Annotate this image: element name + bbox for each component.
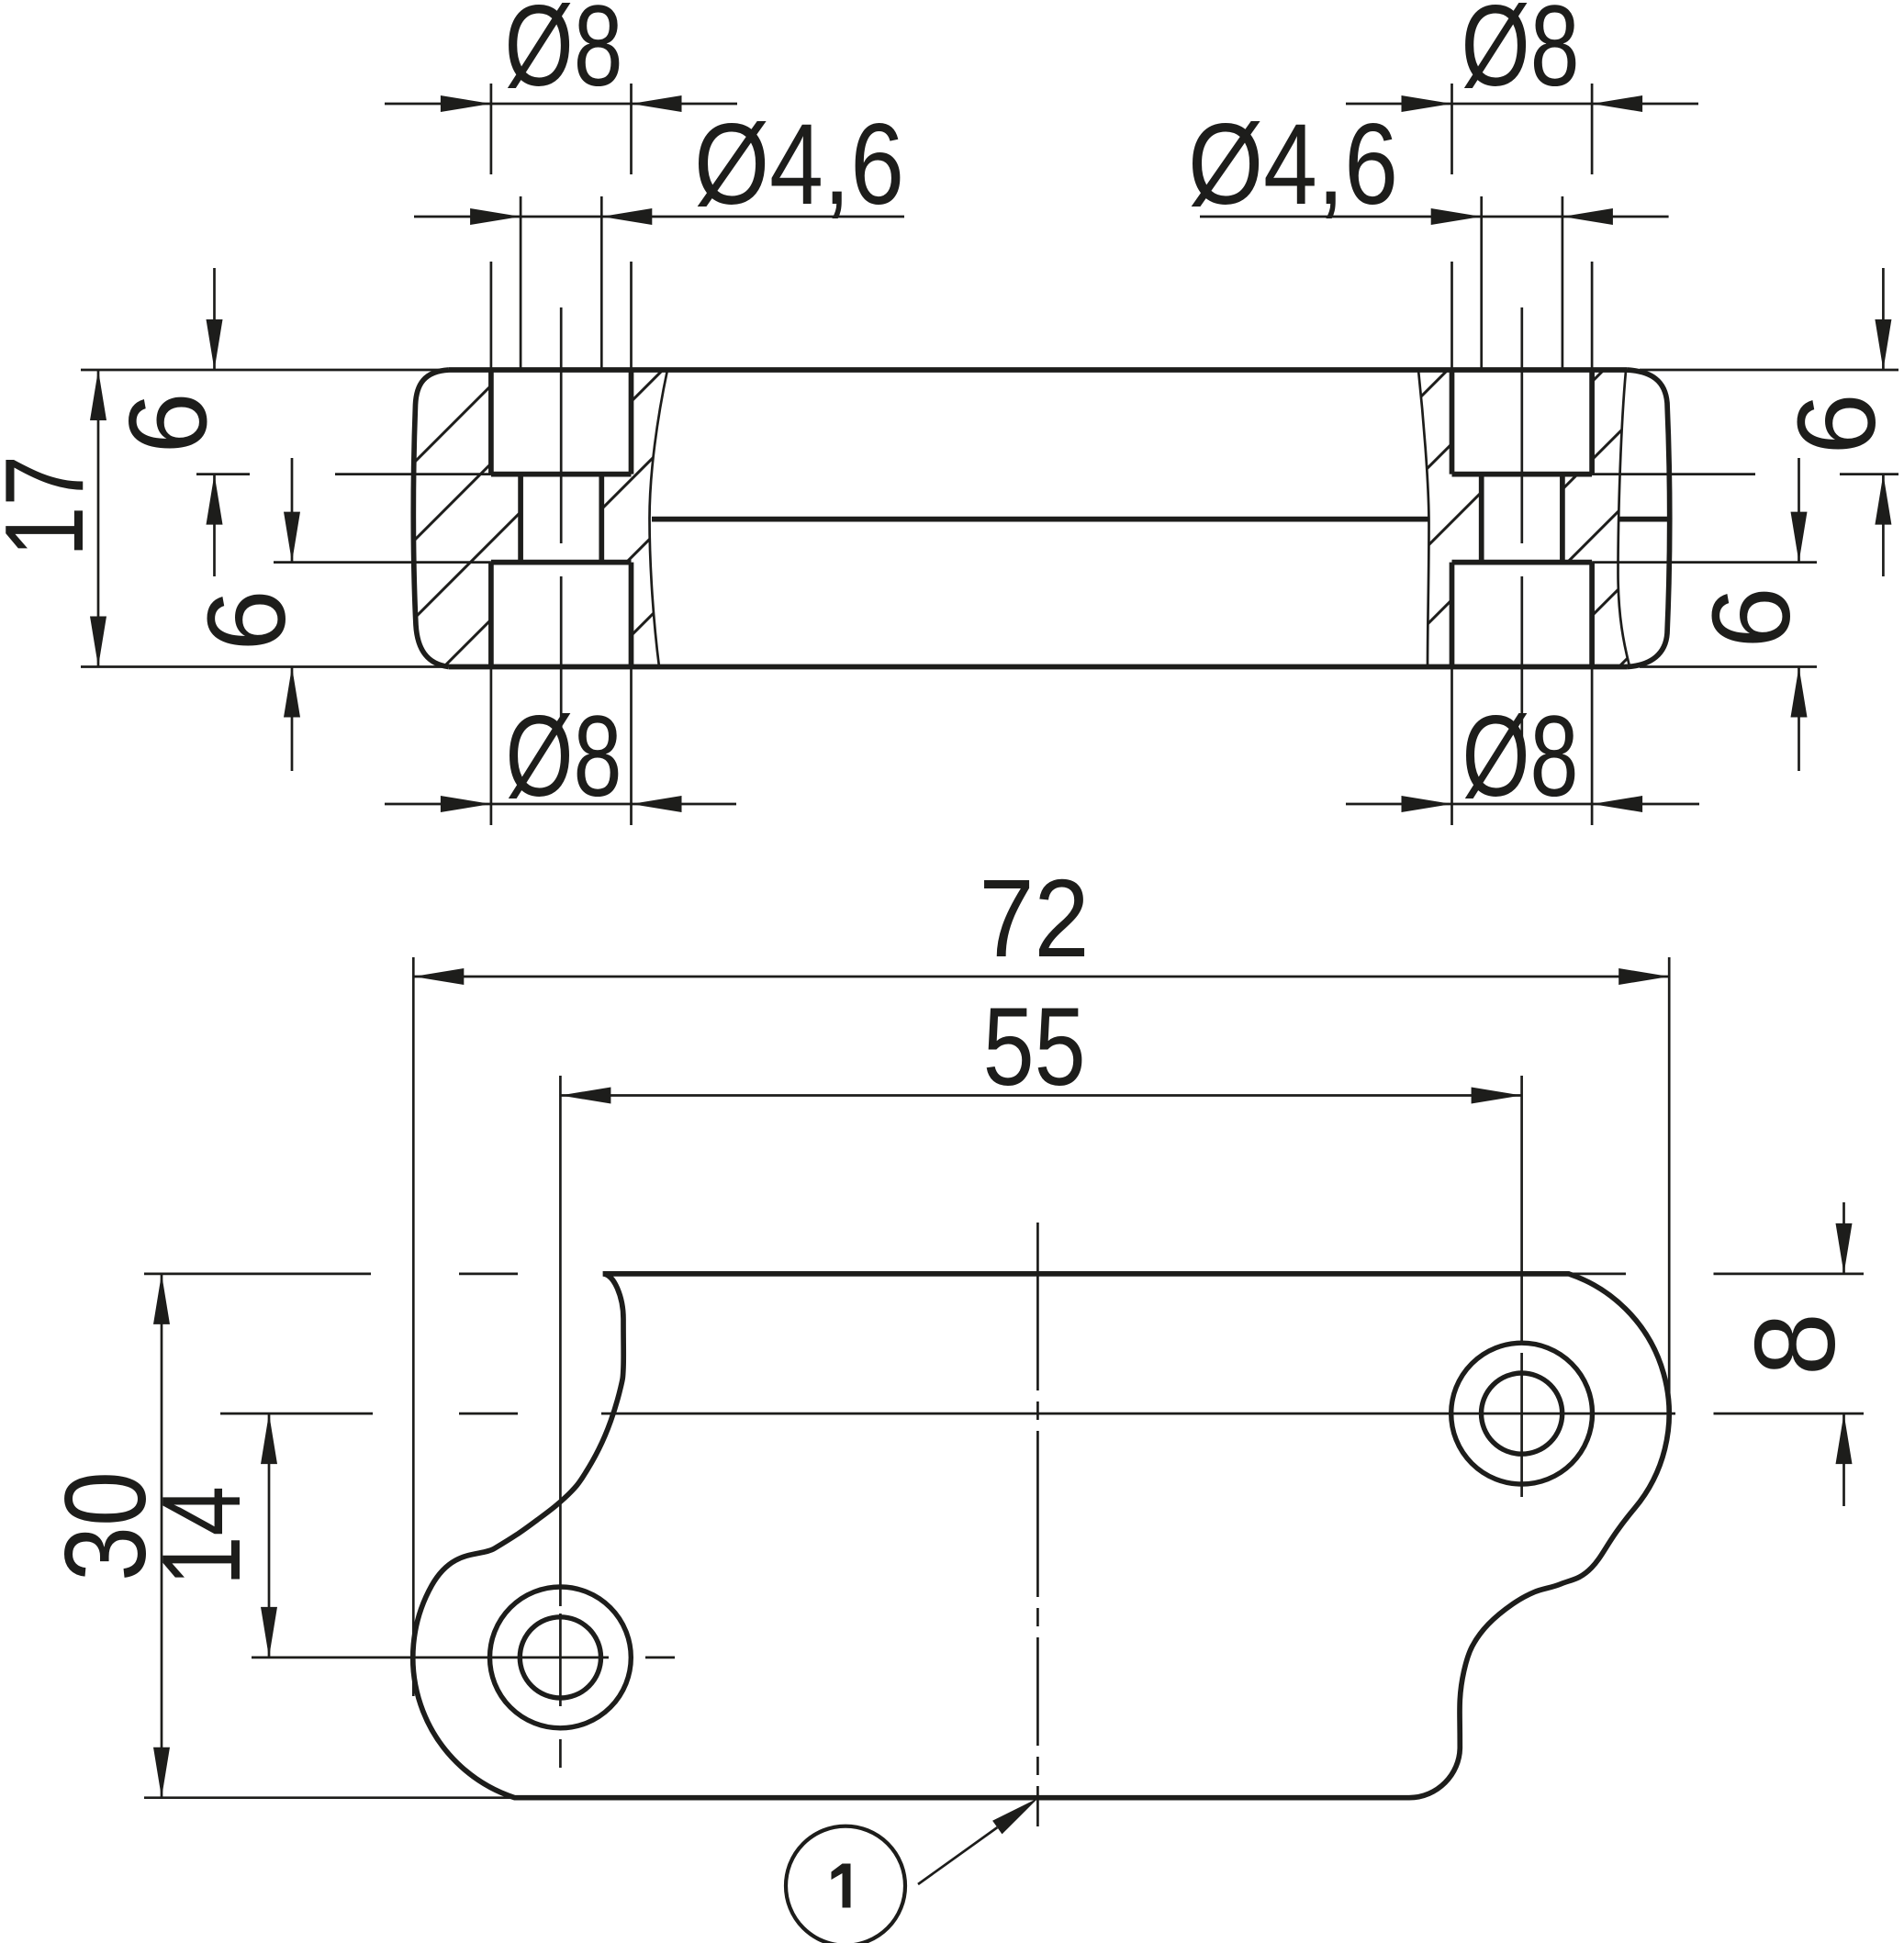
svg-text:Ø4,6: Ø4,6 xyxy=(694,101,904,229)
top edge extension toward 8-dim xyxy=(1561,1273,1626,1276)
balloon circle xyxy=(786,1826,905,1943)
bottom Ø8 extension lines left xyxy=(491,667,632,826)
arrows Ø8 top-right xyxy=(1402,95,1452,112)
left hole outer circle xyxy=(490,1587,632,1728)
label 6 lower-left xyxy=(184,589,308,651)
Ø4,6 extension lines right xyxy=(1482,196,1562,370)
top edge extension left xyxy=(81,369,444,372)
counterbore depth line left (6) xyxy=(196,473,491,475)
Ø8 top-right dimension line xyxy=(1346,103,1698,106)
right hole outer circle xyxy=(1451,1343,1593,1484)
svg-text:Ø8: Ø8 xyxy=(1462,0,1580,110)
arrows 72 xyxy=(413,968,464,985)
arrows 14 xyxy=(261,1413,277,1464)
arrows 17 xyxy=(90,370,106,420)
left hole inner circle xyxy=(520,1617,600,1698)
6 upper-right dimension shafts xyxy=(1882,268,1885,576)
arrows 30 xyxy=(153,1274,170,1324)
14 extension line top / right hole horizontal centerline xyxy=(220,1413,1675,1415)
hatching, right boss xyxy=(1120,340,1904,698)
label 17 xyxy=(0,455,106,557)
arrows 6 lower-left xyxy=(284,512,300,563)
arrows Ø8 top-left xyxy=(441,95,491,112)
left counterbore hole edges xyxy=(491,370,632,667)
svg-text:55: 55 xyxy=(983,984,1086,1109)
svg-text:14: 14 xyxy=(139,1486,263,1586)
Ø4,6 extension lines left xyxy=(521,196,601,370)
svg-text:Ø8: Ø8 xyxy=(505,0,623,110)
svg-text:Ø8: Ø8 xyxy=(1462,693,1579,821)
right hole centerline xyxy=(1520,307,1523,743)
arrows Ø4,6 left xyxy=(470,208,521,225)
Ø4,6 left dimension line xyxy=(414,216,904,218)
right boss right break line xyxy=(1618,371,1630,664)
svg-text:6: 6 xyxy=(184,589,308,651)
Ø8 extension lines right xyxy=(1452,84,1593,370)
arrows 55 xyxy=(560,1088,610,1104)
left hole vertical centerline xyxy=(559,1076,562,1768)
label 6 lower-right xyxy=(1688,586,1813,648)
label 6 upper-left xyxy=(106,392,230,453)
top view: part bottom edge xyxy=(449,664,1627,670)
Ø8 bottom-right dimension line xyxy=(1346,803,1699,806)
lower counterbore line right (6) xyxy=(1592,561,1817,564)
top view: grip mid line between bosses xyxy=(652,517,1428,522)
Ø8 extension lines left xyxy=(491,84,632,370)
30 dimension line xyxy=(161,1274,163,1798)
arrows Ø8 bottom-left xyxy=(441,796,491,812)
Ø8 top-left dimension line xyxy=(385,103,737,106)
top view: left end outline (rounded, slightly barrelled) xyxy=(413,370,449,667)
svg-text:6: 6 xyxy=(1688,586,1813,648)
balloon digit 1 (custom, no foot) xyxy=(832,1864,851,1908)
right counterbore hole edges xyxy=(1452,370,1593,667)
arrows Ø8 bottom-right xyxy=(1402,796,1452,812)
arrows 6 upper-right xyxy=(1875,319,1891,370)
8 dimension shafts xyxy=(1842,1202,1845,1506)
bottom edge extension left xyxy=(81,665,444,668)
top view: right end outline xyxy=(1627,370,1670,667)
svg-text:6: 6 xyxy=(1774,393,1898,454)
label 8 xyxy=(1732,1312,1859,1376)
balloon leader line xyxy=(918,1827,997,1884)
plate mid vertical centerline xyxy=(1036,1223,1039,1826)
bottom edge extension right xyxy=(1640,665,1817,668)
bottom Ø8 extension lines right xyxy=(1452,667,1593,826)
Ø4,6 right dimension line xyxy=(1200,216,1669,218)
arrows Ø4,6 right xyxy=(1431,208,1482,225)
svg-text:Ø4,6: Ø4,6 xyxy=(1188,101,1398,229)
arrows 8 xyxy=(1836,1223,1853,1274)
72 dimension line xyxy=(413,976,1669,978)
left boss break line xyxy=(650,370,668,667)
14 dimension line xyxy=(268,1413,271,1658)
arrows 6 lower-right xyxy=(1791,512,1808,563)
svg-text:6: 6 xyxy=(106,392,230,453)
6 lower-left dimension shafts xyxy=(291,458,294,771)
label 14 xyxy=(139,1486,263,1586)
30 extension line bottom xyxy=(144,1796,543,1799)
72 extension line right xyxy=(1668,957,1671,1432)
8 extension line bottom xyxy=(1714,1413,1865,1415)
left hole centerline xyxy=(560,307,563,743)
30 extension line top xyxy=(144,1273,518,1276)
top view: grip mid line right of break xyxy=(1618,517,1668,522)
svg-text:17: 17 xyxy=(0,455,106,557)
14 extension line bottom / left hole horizontal centerline xyxy=(252,1657,675,1659)
svg-text:Ø8: Ø8 xyxy=(506,693,622,821)
right hole vertical centerline xyxy=(1520,1076,1523,1497)
balloon leader arrowhead xyxy=(992,1798,1038,1834)
right hole inner circle xyxy=(1482,1373,1562,1454)
17 dimension line xyxy=(97,370,100,667)
top edge extension right xyxy=(1640,369,1898,372)
55 dimension line xyxy=(560,1094,1521,1097)
6 lower-right dimension shafts xyxy=(1798,458,1800,771)
svg-text:72: 72 xyxy=(980,855,1090,980)
hatching, left boss xyxy=(101,340,1005,698)
label 6 upper-right xyxy=(1774,393,1898,454)
Ø8 bottom-left dimension line xyxy=(385,803,736,806)
8 extension line top xyxy=(1714,1273,1865,1276)
lower counterbore line left (6) xyxy=(274,561,491,564)
label 30 xyxy=(42,1471,170,1581)
72 extension line left xyxy=(412,957,415,1696)
top view: part top edge xyxy=(449,367,1627,373)
arrows 6 upper-left xyxy=(207,319,223,370)
svg-text:8: 8 xyxy=(1732,1312,1859,1376)
6 upper-left dimension shafts xyxy=(213,268,216,576)
counterbore depth line right (6) xyxy=(1592,473,1898,475)
plate outline xyxy=(413,1274,1669,1798)
right boss left break line xyxy=(1418,370,1429,667)
